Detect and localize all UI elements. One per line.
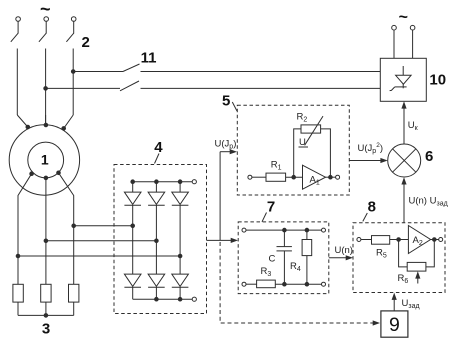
block 4 dashed box bbox=[114, 165, 207, 314]
node bus2 d6 bbox=[178, 297, 182, 301]
label 5 bbox=[222, 93, 237, 111]
block 5 dashed box bbox=[237, 105, 349, 195]
label U(n) bbox=[335, 245, 353, 256]
switch 2 pole C bbox=[66, 17, 76, 115]
node bus2 d5 bbox=[155, 297, 159, 301]
svg-text:1: 1 bbox=[41, 152, 49, 168]
block 9 box bbox=[381, 311, 408, 337]
node supply B tap bbox=[44, 87, 48, 91]
node bus1 d3 bbox=[178, 180, 182, 184]
svg-text:3: 3 bbox=[42, 321, 50, 338]
terminal 7 bottom-left bbox=[242, 282, 246, 286]
label 1 bbox=[41, 152, 49, 168]
diode VD5 bbox=[148, 241, 165, 299]
block 7 dashed box bbox=[238, 222, 329, 294]
wire U(Ip2) to multiplier bbox=[349, 158, 387, 163]
node stator A bbox=[26, 125, 30, 129]
svg-text:~: ~ bbox=[40, 0, 51, 19]
label 4 bbox=[154, 139, 163, 164]
diode VD6 bbox=[172, 256, 189, 299]
label U(Ip2) bbox=[358, 142, 383, 155]
label Uk bbox=[408, 120, 419, 132]
svg-text:6: 6 bbox=[425, 148, 433, 165]
wire U(n) to block 8 bbox=[329, 255, 353, 260]
node rotor C bbox=[57, 171, 61, 175]
terminal supply 10 left bbox=[392, 25, 397, 58]
label R6 bbox=[398, 273, 409, 285]
label 2 bbox=[82, 34, 90, 51]
svg-text:U(Jр2): U(Jр2) bbox=[358, 142, 383, 155]
node bus 3 bbox=[44, 314, 48, 318]
wire A2 out bbox=[431, 239, 439, 241]
resistor R5 bbox=[372, 236, 390, 245]
AC supply tilde (right) bbox=[399, 9, 408, 26]
node 8 output bbox=[433, 238, 437, 242]
label R4 bbox=[290, 261, 301, 273]
svg-text:10: 10 bbox=[429, 72, 446, 89]
node col3 tap bbox=[178, 254, 182, 258]
contact 11 upper bbox=[73, 64, 380, 72]
arrow R6 adjust bbox=[415, 271, 420, 283]
terminal 7 top-right bbox=[322, 228, 326, 232]
node tap B bbox=[44, 239, 48, 243]
AC supply tilde (left) bbox=[40, 0, 51, 19]
terminal in 5 bbox=[248, 175, 252, 179]
node 5 input bbox=[292, 175, 296, 179]
resistor 3b bbox=[41, 284, 51, 315]
label C bbox=[269, 254, 276, 265]
node 8 input bbox=[397, 238, 401, 242]
svg-text:~: ~ bbox=[399, 9, 408, 26]
op-amp A1 bbox=[303, 165, 326, 189]
block 8 dashed box bbox=[353, 223, 445, 293]
resistor R1 bbox=[266, 173, 286, 181]
label 3 bbox=[42, 321, 50, 338]
dashed feedback wire to 9 bbox=[220, 242, 380, 326]
node stator C bbox=[62, 127, 66, 131]
resistor 3c bbox=[69, 284, 79, 315]
resistor R4 bbox=[302, 230, 312, 284]
label 10 bbox=[429, 72, 446, 89]
node stator B bbox=[44, 123, 48, 127]
wire rotor A down bbox=[18, 174, 32, 285]
node rotor A bbox=[30, 172, 34, 176]
wire rotor C down bbox=[59, 173, 74, 284]
motor 1 stator circle bbox=[9, 125, 79, 195]
label 7 bbox=[262, 199, 275, 222]
wire R1 to A1 bbox=[286, 176, 303, 178]
contact 11 lower bbox=[46, 81, 381, 91]
svg-text:7: 7 bbox=[267, 199, 275, 216]
wire U(n)Uzad to multiplier bbox=[401, 177, 406, 223]
wire phase C diagonal to motor bbox=[64, 115, 73, 128]
wire feedback up bbox=[294, 129, 301, 177]
wire R2 to out bbox=[321, 129, 331, 177]
label 9 bbox=[389, 314, 400, 336]
wire tap B to rectifier bbox=[46, 240, 156, 242]
node cap bottom bbox=[283, 282, 287, 286]
svg-text:8: 8 bbox=[368, 199, 376, 216]
switch 2 pole A bbox=[11, 17, 21, 115]
wire feedback 8 bbox=[399, 240, 408, 267]
diode VD2 bbox=[148, 182, 165, 241]
node col1 tap bbox=[131, 224, 135, 228]
label A1 bbox=[310, 174, 320, 186]
label R2 bbox=[297, 112, 308, 124]
wire tap C to rectifier bbox=[74, 225, 133, 227]
node 5 output bbox=[329, 175, 333, 179]
wire phase B to motor bbox=[45, 115, 47, 125]
svg-text:C: C bbox=[269, 254, 276, 265]
diode VD1 bbox=[124, 182, 141, 226]
wire 7 bottom rail bbox=[275, 283, 321, 285]
resistor 3a bbox=[13, 284, 23, 315]
label A2 bbox=[413, 235, 423, 247]
wire 9 to 8 bbox=[392, 293, 397, 311]
wire A1 out bbox=[326, 176, 336, 178]
label 6 bbox=[425, 148, 433, 165]
wire R5 to A2 bbox=[390, 239, 409, 241]
node R4 bottom bbox=[305, 282, 309, 286]
node tap A bbox=[16, 254, 20, 258]
wire to R3 bbox=[246, 283, 257, 285]
wire tap A to rectifier bbox=[18, 255, 180, 257]
label R1 bbox=[271, 160, 282, 172]
diode VD4 bbox=[124, 226, 141, 299]
terminal supply 10 right bbox=[410, 25, 415, 58]
switch 2 pole B bbox=[39, 17, 49, 125]
wire bottom bus 4 bbox=[133, 298, 192, 300]
wire bottom bus bbox=[18, 314, 74, 316]
wire 7 top rail bbox=[246, 229, 322, 231]
terminal 7 top-left bbox=[242, 228, 246, 232]
block 10 box bbox=[380, 58, 426, 101]
terminal 8 out bbox=[439, 238, 443, 242]
svg-text:U(Jр): U(Jр) bbox=[215, 138, 237, 150]
svg-text:5: 5 bbox=[222, 93, 230, 110]
capacitor C bbox=[277, 230, 292, 284]
label R5 bbox=[376, 247, 387, 259]
multiplier 6 circle bbox=[388, 144, 421, 177]
node R4 top bbox=[305, 228, 309, 232]
node tap C bbox=[72, 224, 76, 228]
label U(Ip) bbox=[215, 138, 237, 150]
label Uzad bbox=[402, 298, 420, 310]
label R3 bbox=[261, 266, 272, 278]
terminal out 5 bbox=[336, 175, 340, 179]
motor 1 rotor circle bbox=[28, 142, 64, 178]
resistor R3 bbox=[257, 280, 276, 288]
svg-text:U: U bbox=[299, 137, 306, 148]
diode VD3 bbox=[172, 182, 189, 256]
svg-text:U(n): U(n) bbox=[335, 245, 353, 256]
op-amp A2 bbox=[408, 226, 430, 254]
terminal minus bbox=[192, 297, 196, 301]
label U underlined bbox=[299, 137, 309, 148]
wire U(Ip) feed bbox=[207, 149, 239, 243]
node col2 tap bbox=[155, 239, 159, 243]
svg-text:2: 2 bbox=[82, 34, 90, 51]
wire in to R5 bbox=[361, 239, 372, 241]
wire rotor B down bbox=[45, 178, 47, 284]
terminal 7 bottom-right bbox=[322, 282, 326, 286]
svg-text:11: 11 bbox=[141, 49, 157, 66]
node bus1 d1 bbox=[131, 180, 135, 184]
resistor R6 bbox=[407, 262, 426, 271]
resistor R2 variable bbox=[301, 116, 323, 145]
label 8 bbox=[363, 199, 376, 222]
thyristor symbol bbox=[390, 66, 412, 91]
node cap top bbox=[283, 228, 287, 232]
wire Uk to block 10 bbox=[401, 101, 406, 144]
node bus1 d2 bbox=[155, 180, 159, 184]
label 11 bbox=[141, 49, 157, 66]
svg-text:9: 9 bbox=[389, 314, 400, 336]
label U(n)Uzad bbox=[409, 196, 448, 208]
wire phase A diagonal to motor bbox=[17, 115, 28, 127]
wire top bus bbox=[133, 181, 192, 183]
terminal plus bbox=[192, 180, 196, 184]
wire R6 to out bbox=[426, 240, 434, 267]
node supply C tap bbox=[71, 70, 75, 74]
terminal 8 in bbox=[357, 238, 361, 242]
wire in to R1 bbox=[252, 176, 266, 178]
node rotor B bbox=[44, 176, 48, 180]
